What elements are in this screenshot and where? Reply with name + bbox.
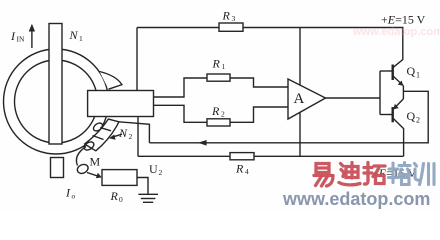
char xun [415, 164, 419, 181]
svg-text:R: R [222, 9, 231, 23]
char di [346, 163, 358, 179]
wire: vertical from +E rail to R4 rail (passes behind op-amp) [299, 28, 301, 157]
resistor R1 [207, 74, 230, 81]
watermark url bottom [283, 189, 430, 210]
wire: output node to feedback loop [149, 91, 428, 143]
svg-text:N: N [118, 126, 128, 140]
hall element block [88, 91, 154, 117]
ground symbol [138, 193, 158, 195]
svg-text:N: N [69, 28, 79, 42]
arrowhead into R0 [96, 173, 102, 179]
wire: R0 to ground [137, 178, 148, 195]
I_IN arrow [31, 29, 33, 48]
svg-text:2: 2 [159, 168, 163, 177]
primary conductor bar bottom stub [51, 158, 64, 178]
compensation winding N2 ribbon on core [85, 119, 119, 151]
wire: emitters junction vertical [402, 86, 404, 99]
feedback wire arrowhead (left pointing) [198, 140, 207, 146]
winding bottom tail to M loop [76, 147, 86, 166]
svg-text:M: M [90, 155, 101, 169]
transistor Q2 emitter [393, 99, 403, 109]
svg-text:2: 2 [221, 110, 225, 119]
svg-text:0: 0 [119, 195, 123, 204]
N2 label arrow [112, 134, 122, 137]
svg-text:U: U [149, 162, 158, 176]
svg-text:1: 1 [416, 71, 420, 80]
wire: block right to R2 to op-amp non-inverting input [154, 105, 289, 122]
core gap flare (top end of C core) [100, 72, 122, 90]
wire: stub to Q2 base [380, 114, 393, 116]
watermark chinese characters (hand drawn strokes) [314, 163, 385, 187]
wire: block right to R1 to op-amp inverting input [154, 78, 289, 97]
char tuo [364, 163, 372, 185]
resistor R2 [207, 119, 230, 126]
wire: block top to +E rail [136, 28, 138, 91]
svg-text:R: R [212, 57, 221, 71]
wire: +E top rail with corner down to Q1 collector [137, 28, 403, 68]
wire: feedback down-lead to winding [119, 122, 149, 143]
arrow from M loop into R0 [87, 173, 98, 177]
transistor Q1 emitter [393, 76, 403, 86]
transistor Q2 emitter arrowhead (PNP, points to base) [393, 104, 399, 110]
core ring inner circle [15, 60, 98, 143]
winding wire loop bottom [83, 140, 96, 151]
transistor Q1 emitter arrowhead [398, 81, 404, 86]
svg-text:I: I [65, 186, 71, 200]
svg-text:4: 4 [245, 167, 249, 176]
winding turn line 2 [93, 136, 104, 140]
transistor Q1 base bar [392, 65, 394, 81]
core ring outer circle [4, 49, 109, 154]
svg-text:R: R [110, 189, 119, 203]
svg-text:2: 2 [416, 116, 420, 125]
wire: base bus vertical [379, 71, 381, 115]
primary conductor bar (vertical, through core) [49, 24, 62, 145]
svg-text:IN: IN [17, 35, 25, 44]
wire: block bottom to R4 rail [137, 117, 139, 157]
svg-text:+E=15 V: +E=15 V [381, 13, 426, 27]
svg-text:1: 1 [222, 62, 226, 71]
svg-text:Q: Q [407, 109, 416, 123]
char pei [389, 163, 399, 183]
wire: op-amp output to transistor bases [326, 97, 381, 99]
svg-text:2: 2 [129, 132, 133, 141]
svg-text:o: o [72, 192, 76, 201]
resistor R3 [219, 23, 243, 31]
winding wire loop top [92, 121, 104, 132]
svg-text:1: 1 [79, 34, 83, 43]
transistor Q2 collector [393, 119, 403, 157]
svg-text:I: I [10, 29, 16, 43]
svg-text:3: 3 [232, 14, 236, 23]
op-amp U1 triangle [288, 79, 326, 119]
char yi [316, 164, 329, 173]
winding turn line 1 [100, 128, 111, 131]
transistor Q2 base bar [392, 107, 394, 122]
svg-text:R: R [211, 104, 220, 118]
wire: R4 rail (bottom, -E) [138, 155, 404, 157]
svg-text:Q: Q [407, 64, 416, 78]
resistor R0 [102, 170, 137, 186]
watermark url top right (faint) [353, 26, 440, 38]
svg-text:A: A [294, 91, 305, 107]
svg-text:R: R [235, 162, 244, 176]
resistor R4 [230, 153, 254, 160]
wire: stub to Q1 base [380, 70, 393, 72]
M loop ellipse [76, 163, 90, 175]
